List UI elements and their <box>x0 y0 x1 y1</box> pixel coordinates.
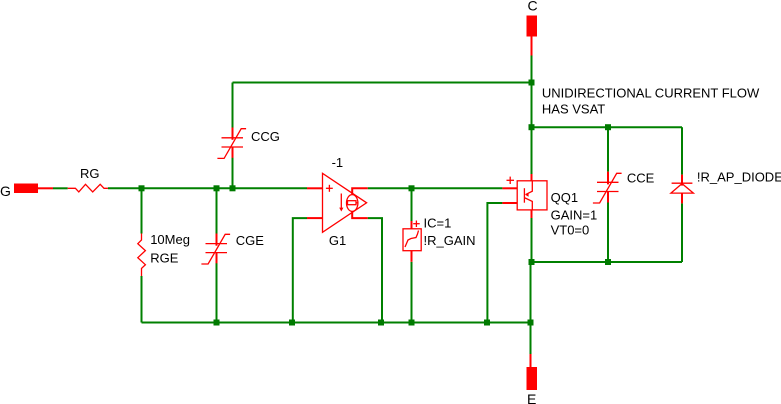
svg-text:RG: RG <box>80 166 100 181</box>
svg-text:GAIN=1: GAIN=1 <box>551 207 598 222</box>
svg-text:RGE: RGE <box>150 250 179 265</box>
svg-text:G1: G1 <box>329 233 346 248</box>
svg-text:10Meg: 10Meg <box>150 232 190 247</box>
svg-text:E: E <box>527 391 536 404</box>
svg-text:UNIDIRECTIONAL CURRENT FLOW: UNIDIRECTIONAL CURRENT FLOW <box>542 86 760 101</box>
svg-text:-1: -1 <box>332 155 344 170</box>
svg-text:C: C <box>528 0 538 13</box>
svg-text:G: G <box>0 183 11 199</box>
svg-text:VT0=0: VT0=0 <box>551 222 590 237</box>
svg-text:CCG: CCG <box>251 129 280 144</box>
svg-text:CGE: CGE <box>236 233 265 248</box>
svg-text:HAS VSAT: HAS VSAT <box>542 102 605 117</box>
svg-text:!R_AP_DIODE: !R_AP_DIODE <box>697 170 781 185</box>
svg-text:QQ1: QQ1 <box>551 190 578 205</box>
svg-text:IC=1: IC=1 <box>424 216 452 231</box>
svg-text:CCE: CCE <box>627 171 655 186</box>
svg-text:!R_GAIN: !R_GAIN <box>424 233 476 248</box>
